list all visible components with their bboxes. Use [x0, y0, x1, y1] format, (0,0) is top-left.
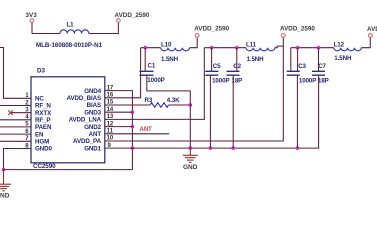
junction C1 top	[144, 46, 148, 50]
wire pin6 EN	[0, 133, 31, 135]
svg-text:GND1: GND1	[84, 145, 101, 152]
junction C7 top	[317, 46, 321, 50]
capacitor C7	[312, 48, 329, 85]
svg-text:GND: GND	[183, 164, 198, 171]
wire pin1 NC net from edge	[0, 48, 31, 99]
svg-text:GND4: GND4	[84, 88, 101, 95]
svg-text:1.5NH: 1.5NH	[334, 55, 352, 62]
junction R3 C1 gnd	[189, 103, 193, 107]
wire pin12 GND2	[105, 126, 133, 128]
junction C3 top	[296, 46, 300, 50]
inductor L1	[36, 22, 103, 49]
svg-text:AVDD_BIAS: AVDD_BIAS	[67, 95, 101, 102]
wire pin14 GND3	[105, 111, 133, 113]
capacitor C1	[140, 48, 191, 148]
inductor L12	[334, 42, 362, 63]
junction gnd C3	[296, 146, 300, 150]
power flag AVDD_2590 tap1	[194, 26, 229, 38]
ground symbol right	[183, 148, 198, 162]
capacitor C2	[227, 48, 243, 148]
svg-text:GND0: GND0	[35, 146, 52, 153]
wire pin10 AVDD_PA riser	[105, 46, 283, 141]
svg-text:CC2590: CC2590	[33, 163, 56, 170]
wire AVDD rail seg1	[141, 47, 161, 49]
wire pin7 HGM	[0, 140, 31, 142]
junction gnd C2	[231, 146, 235, 150]
svg-text:GND2: GND2	[84, 124, 101, 131]
svg-text:L12: L12	[334, 42, 345, 49]
power flag AVDD_2590 tap3	[367, 26, 377, 37]
resistor R3	[145, 97, 181, 107]
svg-text:RF_P: RF_P	[35, 117, 50, 124]
junction gnd C5	[209, 146, 213, 150]
no-connect X pin3	[8, 110, 13, 115]
junction gnd R3	[189, 146, 193, 150]
junction ground rail left	[131, 146, 135, 150]
svg-text:GND3: GND3	[84, 109, 101, 116]
IC D3 CC2590 body	[31, 68, 105, 170]
svg-text:1.5NH: 1.5NH	[161, 56, 179, 63]
svg-text:BIAS: BIAS	[87, 102, 101, 109]
wire pin9 GND1 and ground rail	[105, 76, 319, 149]
svg-text:C3: C3	[298, 63, 306, 70]
power flag AVDD_2590 tap2	[280, 26, 315, 38]
svg-text:AVDD_2590: AVDD_2590	[280, 26, 315, 33]
wire L12 to tap3	[361, 37, 370, 47]
svg-text:HGM: HGM	[35, 139, 49, 146]
svg-text:AVDD_PA: AVDD_PA	[73, 138, 102, 145]
power flag AVDD_2590 top-left	[115, 12, 150, 22]
svg-text:4.3K: 4.3K	[167, 97, 180, 104]
svg-text:D3: D3	[37, 68, 45, 75]
svg-text:C5: C5	[213, 63, 221, 70]
wire pin8 GND0 down	[4, 149, 32, 170]
wire L1 to AVDD tap	[89, 22, 119, 33]
svg-text:MLB-160808-0010P-N1: MLB-160808-0010P-N1	[36, 42, 103, 49]
wire AVDD rail seg3	[291, 47, 334, 49]
svg-text:L1: L1	[67, 22, 75, 29]
wire 3V3 to L1	[32, 33, 60, 35]
wire pin15 BIAS to R3	[105, 104, 150, 106]
svg-text:1000P: 1000P	[212, 77, 229, 84]
inductor L10	[161, 42, 190, 63]
wire L11 to tap2 jog	[275, 37, 284, 47]
svg-text:3V3: 3V3	[26, 12, 38, 19]
svg-text:1000P: 1000P	[147, 77, 164, 84]
svg-text:18P: 18P	[232, 77, 243, 84]
svg-text:RXTX: RXTX	[35, 110, 52, 117]
svg-text:NC: NC	[35, 96, 44, 103]
svg-text:AVDD_2590: AVDD_2590	[115, 12, 150, 19]
power flag 3V3	[26, 12, 38, 33]
wire pin3 RXTX	[11, 112, 31, 114]
svg-text:1000P: 1000P	[299, 77, 316, 84]
wire R3 to gnd riser	[169, 104, 191, 106]
svg-text:GND: GND	[0, 192, 10, 199]
inductor L11	[246, 42, 275, 63]
junction GND3	[131, 110, 135, 114]
svg-text:C2: C2	[233, 63, 241, 70]
wire pin4 RF_P	[0, 119, 31, 121]
wire pin2 RF_N	[0, 105, 31, 107]
wire pin13 AVDD_LNA riser	[105, 48, 205, 120]
capacitor C3	[287, 48, 317, 148]
wire pin5 PAEN	[0, 126, 31, 128]
junction C2 top	[235, 46, 239, 50]
svg-text:RF_N: RF_N	[35, 103, 51, 110]
svg-text:AVDD_2590: AVDD_2590	[367, 26, 377, 33]
svg-text:C7: C7	[318, 63, 326, 70]
svg-text:AVDD_LNA: AVDD_LNA	[69, 117, 102, 124]
svg-text:C1: C1	[148, 62, 156, 69]
svg-text:EN: EN	[35, 131, 44, 138]
junction C5 top	[210, 46, 214, 50]
wire pin17 GND4 down	[105, 91, 133, 170]
svg-text:18P: 18P	[318, 77, 329, 84]
svg-text:ANT: ANT	[140, 127, 153, 133]
junction pin8 ground	[2, 168, 6, 172]
svg-text:L11: L11	[246, 42, 257, 49]
svg-text:ANT: ANT	[89, 131, 102, 138]
svg-text:AVDD_2590: AVDD_2590	[194, 26, 229, 33]
wire AVDD rail seg2	[204, 47, 246, 49]
svg-text:1.5NH: 1.5NH	[247, 56, 265, 63]
svg-text:L10: L10	[161, 42, 172, 49]
wire lower ground rail	[4, 169, 133, 171]
wire pin11 ANT stub	[105, 133, 170, 135]
wire pin16 AVDD_BIAS up	[105, 48, 141, 98]
wire L10 to tap1	[190, 37, 198, 48]
ground symbol left	[0, 170, 11, 191]
junction GND2	[131, 125, 135, 129]
svg-text:PAEN: PAEN	[35, 124, 52, 131]
capacitor C5	[205, 48, 229, 148]
